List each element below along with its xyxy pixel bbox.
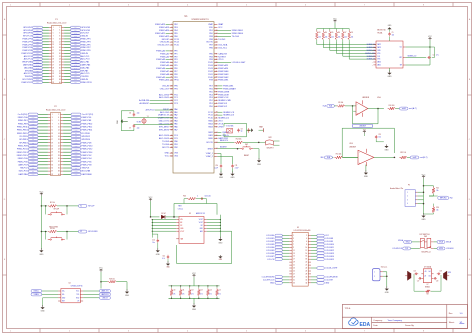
ground below U2-B bbox=[364, 165, 369, 178]
svg-text:PG13: PG13 bbox=[208, 68, 213, 70]
svg-text:FSMC-NOE: FSMC-NOE bbox=[218, 94, 229, 96]
svg-text:LCD-BL-LIGHT: LCD-BL-LIGHT bbox=[232, 62, 246, 64]
svg-text:FSMC-NWE: FSMC-NWE bbox=[218, 91, 230, 93]
wire BOOT0 to switch bbox=[243, 142, 260, 144]
svg-text:GND: GND bbox=[385, 292, 390, 294]
svg-text:PC1: PC1 bbox=[174, 97, 178, 99]
capacitor C15 with ground bbox=[162, 255, 170, 269]
svg-text:LCD-DB15: LCD-DB15 bbox=[325, 259, 334, 261]
label C8 2.2u bbox=[178, 206, 183, 211]
svg-text:PF3: PF3 bbox=[174, 59, 177, 61]
wire NRST net bbox=[208, 147, 240, 151]
svg-text:GPIO-PE2: GPIO-PE2 bbox=[23, 27, 32, 29]
svg-text:LCD-DB9: LCD-DB9 bbox=[325, 241, 333, 243]
wire crystal gnd loop bbox=[121, 111, 134, 131]
svg-text:FSMC-CLK: FSMC-CLK bbox=[218, 97, 229, 99]
svg-text:FSMC-PF1: FSMC-PF1 bbox=[81, 39, 90, 41]
svg-text:LCD-DB14: LCD-DB14 bbox=[325, 256, 334, 258]
svg-text:OSC-IN: OSC-IN bbox=[162, 86, 170, 88]
svg-text:T4-CH3: T4-CH3 bbox=[218, 39, 226, 41]
svg-text:SDMMC-CK: SDMMC-CK bbox=[223, 112, 235, 114]
svg-text:BOOT1: BOOT1 bbox=[162, 147, 170, 149]
svg-text:FSMC-PE13: FSMC-PE13 bbox=[17, 130, 28, 132]
svg-text:GPIO-PE5: GPIO-PE5 bbox=[81, 30, 90, 32]
svg-text:PB6: PB6 bbox=[209, 48, 213, 50]
capacitor C5 104 bbox=[388, 32, 394, 41]
svg-text:PC14: PC14 bbox=[174, 42, 179, 44]
svg-text:FSMC-PF6: FSMC-PF6 bbox=[23, 47, 32, 49]
resistor network R22 4.7k bbox=[188, 285, 193, 299]
title block bbox=[342, 305, 467, 329]
net flag SW-B bbox=[434, 241, 451, 244]
svg-text:FSMC-NE4: FSMC-NE4 bbox=[218, 71, 229, 73]
svg-text:LCD-DB5: LCD-DB5 bbox=[266, 250, 274, 252]
svg-text:FSMC-NE2: FSMC-NE2 bbox=[218, 77, 229, 79]
connector P2 Header-Male-2.54_2x20 bbox=[17, 106, 94, 176]
svg-text:VDD: VDD bbox=[174, 156, 179, 158]
net flag NRF-IRQ bbox=[418, 196, 454, 200]
svg-text:SPI1-MISO: SPI1-MISO bbox=[159, 126, 170, 128]
svg-text:GND: GND bbox=[156, 254, 161, 256]
svg-text:FSMC-PF2: FSMC-PF2 bbox=[23, 41, 32, 43]
connector P3 Header-Male-4 Pin bbox=[390, 185, 424, 207]
resistor R14 10k bbox=[235, 139, 243, 144]
svg-text:FSMC-PG2: FSMC-PG2 bbox=[82, 155, 92, 157]
svg-text:FSMC-PG0: FSMC-PG0 bbox=[18, 117, 28, 119]
ground right of OSC32 bbox=[247, 128, 254, 132]
net flag LCD-SPI-CLK input bbox=[392, 247, 419, 250]
svg-text:FSMC-PG4: FSMC-PG4 bbox=[82, 158, 92, 160]
MCU U1 left pins bbox=[139, 23, 179, 157]
svg-text:FSMC-PF8: FSMC-PF8 bbox=[23, 50, 32, 52]
resistor network R25 4.7k bbox=[216, 285, 221, 299]
svg-text:TIM-PC7: TIM-PC7 bbox=[20, 168, 28, 170]
svg-text:LCD-DB11: LCD-DB11 bbox=[325, 247, 334, 249]
regulator U3 AMS1117-3.3 bbox=[176, 212, 207, 244]
svg-text:FSMC-PG6: FSMC-PG6 bbox=[82, 161, 92, 163]
LCD connector U5 NT35510 bbox=[262, 227, 339, 286]
svg-text:LCD-DB8: LCD-DB8 bbox=[325, 238, 333, 240]
svg-text:KEY-PC13: KEY-PC13 bbox=[23, 36, 32, 38]
connector P1 Header-Male-2.54_2x20 bbox=[21, 19, 91, 84]
svg-text:I2C-PB10: I2C-PB10 bbox=[82, 133, 90, 135]
crystal Y1 8MHz bbox=[136, 116, 148, 124]
ground below key rail bbox=[39, 232, 44, 256]
ground on box loop bbox=[218, 255, 223, 261]
svg-text:GND: GND bbox=[325, 282, 330, 284]
svg-text:FSMC-PD15: FSMC-PD15 bbox=[17, 155, 28, 157]
power VCC resistor network bbox=[192, 273, 196, 286]
op-amp U2-A labels bbox=[362, 96, 381, 99]
svg-text:LCD-CS: LCD-CS bbox=[267, 259, 274, 261]
svg-text:GND: GND bbox=[219, 177, 224, 179]
wire crystal osc-in/out bbox=[128, 118, 150, 125]
svg-text:LCD-SPI-CLK: LCD-SPI-CLK bbox=[263, 280, 275, 282]
diode D1 M7 bbox=[161, 213, 166, 219]
svg-text:DIP SWITCH: DIP SWITCH bbox=[420, 234, 431, 236]
svg-text:FSMC-PE8: FSMC-PE8 bbox=[82, 120, 92, 122]
wire U3 output rail bbox=[207, 215, 221, 238]
svg-text:SPI-PB12: SPI-PB12 bbox=[82, 136, 90, 138]
capacitor C4 4.7u bbox=[427, 47, 439, 59]
svg-text:GND: GND bbox=[270, 282, 275, 284]
svg-text:PB3: PB3 bbox=[209, 59, 213, 61]
svg-text:FSMC-PD10: FSMC-PD10 bbox=[82, 146, 93, 148]
svg-text:PC13: PC13 bbox=[174, 39, 179, 41]
svg-text:FSMC-PE10: FSMC-PE10 bbox=[82, 123, 93, 125]
svg-text:VCC: VCC bbox=[165, 156, 170, 158]
svg-text:BOOT-PB2: BOOT-PB2 bbox=[23, 79, 32, 81]
wire net A-PD-PC13 bbox=[146, 109, 173, 112]
svg-text:LCD-DB12: LCD-DB12 bbox=[325, 250, 334, 252]
svg-text:PC11: PC11 bbox=[208, 115, 212, 117]
svg-text:PH0: PH0 bbox=[174, 86, 178, 88]
svg-text:BOOT0: BOOT0 bbox=[207, 42, 213, 44]
svg-text:PC5: PC5 bbox=[174, 138, 178, 140]
resistor R3 10k pullup bbox=[316, 29, 321, 42]
svg-text:JTDI: JTDI bbox=[218, 121, 223, 123]
resistor R4 10k pullup bbox=[322, 29, 327, 42]
svg-text:PF7: PF7 bbox=[174, 71, 177, 73]
svg-text:PD6: PD6 bbox=[209, 88, 213, 90]
svg-text:LCD-DB3: LCD-DB3 bbox=[266, 244, 274, 246]
ground right of C13 bbox=[384, 142, 389, 152]
svg-text:FSMC-D3: FSMC-D3 bbox=[218, 103, 228, 105]
USB bridge U4 CH340C bbox=[58, 283, 83, 303]
svg-text:JTDO: JTDO bbox=[218, 59, 224, 61]
resistor network R24 4.7k bbox=[207, 285, 212, 299]
svg-text:LCD-RST: LCD-RST bbox=[325, 280, 334, 282]
svg-text:GPIO-PE6: GPIO-PE6 bbox=[23, 33, 32, 35]
svg-text:FSMC-PF5: FSMC-PF5 bbox=[81, 44, 90, 46]
svg-text:FSMC-PF10: FSMC-PF10 bbox=[21, 53, 32, 55]
svg-text:GND: GND bbox=[388, 76, 393, 78]
svg-text:PF6: PF6 bbox=[174, 68, 177, 70]
svg-text:GND: GND bbox=[257, 164, 262, 166]
svg-text:FSMC-PD11: FSMC-PD11 bbox=[17, 149, 28, 151]
resistor R7 10k pullup bbox=[342, 29, 347, 42]
wire VCC to diode D1 bbox=[150, 216, 160, 218]
svg-text:T3-CH4: T3-CH4 bbox=[162, 144, 170, 146]
svg-text:PG14: PG14 bbox=[208, 65, 213, 67]
wire net SDMMC-CK bbox=[330, 42, 376, 52]
svg-text:FSMC-NE3: FSMC-NE3 bbox=[218, 74, 229, 76]
resistor R15 10k bbox=[429, 187, 439, 196]
svg-text:PB0: PB0 bbox=[174, 141, 178, 143]
svg-text:T3-CH3: T3-CH3 bbox=[162, 141, 170, 143]
svg-text:GND-IN: GND-IN bbox=[81, 36, 88, 38]
wire resistor network rails bbox=[169, 286, 220, 298]
resistor R13 bypass bbox=[183, 196, 211, 204]
ground below resistor network bbox=[192, 298, 197, 311]
svg-text:PF10: PF10 bbox=[174, 80, 178, 82]
resistor network R21 4.7k bbox=[179, 285, 184, 299]
wire crystal to U1 OSC pins bbox=[149, 118, 173, 125]
label LM358DR boxed bbox=[353, 124, 373, 127]
svg-text:Drawn By:: Drawn By: bbox=[405, 325, 415, 327]
capacitor C14 10u bbox=[152, 234, 159, 249]
wire U2-B output bbox=[374, 157, 395, 159]
svg-text:GND: GND bbox=[165, 153, 170, 155]
svg-text:STM32F103RCT6: STM32F103RCT6 bbox=[191, 19, 209, 21]
resistor R2 10k KEY-DOWN bbox=[41, 227, 79, 233]
svg-text:LCD-DB10: LCD-DB10 bbox=[325, 244, 334, 246]
net flag out-(A-T) bbox=[395, 107, 417, 110]
wire net SDMMC-D2 bbox=[349, 42, 376, 61]
wire net SDMMC-D3 bbox=[343, 42, 376, 58]
svg-text:FSMC-PE9: FSMC-PE9 bbox=[18, 123, 28, 125]
svg-text:PF4: PF4 bbox=[174, 62, 177, 64]
svg-text:LCD-DB1: LCD-DB1 bbox=[266, 238, 274, 240]
svg-text:FSMC-PG3: FSMC-PG3 bbox=[18, 158, 28, 160]
wire regulator green box loop bbox=[177, 231, 232, 263]
svg-text:PE4: PE4 bbox=[174, 30, 178, 32]
svg-text:PD1: PD1 bbox=[209, 103, 213, 105]
svg-text:PC15: PC15 bbox=[174, 45, 179, 47]
power VCC USB bbox=[99, 268, 103, 289]
svg-text:PD7: PD7 bbox=[209, 86, 213, 88]
svg-text:FSMC-PE14: FSMC-PE14 bbox=[82, 130, 93, 132]
capacitor C10 2.2uF with ground bbox=[214, 164, 223, 179]
card socket U6 MICRO SD TF-01A bbox=[372, 29, 406, 68]
svg-text:T4-CH4: T4-CH4 bbox=[232, 36, 240, 38]
svg-text:-: - bbox=[357, 103, 358, 106]
wire U2-A feedback loop bbox=[353, 106, 384, 124]
svg-text:GND: GND bbox=[192, 309, 197, 311]
push button KEY-DOWN bbox=[46, 232, 67, 241]
svg-text:PC2: PC2 bbox=[174, 100, 178, 102]
svg-text:SPI-PB14: SPI-PB14 bbox=[82, 139, 90, 141]
svg-text:Header-Male-2.54_2x20: Header-Male-2.54_2x20 bbox=[47, 22, 66, 24]
svg-text:PE0: PE0 bbox=[209, 33, 213, 35]
svg-text:FSMC-PE15: FSMC-PE15 bbox=[17, 133, 28, 135]
svg-text:PE2: PE2 bbox=[174, 24, 178, 26]
svg-text:PH1: PH1 bbox=[174, 88, 178, 90]
ground below sensor bbox=[385, 286, 390, 294]
svg-text:SDMMC-CMD: SDMMC-CMD bbox=[218, 100, 231, 102]
capacitor C8 bbox=[237, 128, 243, 132]
svg-text:FSMC-NBL0: FSMC-NBL0 bbox=[232, 33, 244, 35]
svg-text:GND: GND bbox=[364, 176, 369, 178]
capacitor C13 104 bbox=[364, 133, 383, 142]
svg-text:PE1: PE1 bbox=[209, 30, 213, 32]
svg-text:FSMC-NE1: FSMC-NE1 bbox=[218, 80, 229, 82]
EasyEDA logo bbox=[349, 318, 371, 328]
svg-text:FSMC-PE12: FSMC-PE12 bbox=[82, 127, 93, 129]
capacitors C16 C17 speaker left bbox=[413, 271, 421, 283]
net flag LCD-MOSI output bbox=[434, 247, 455, 250]
svg-text:GND: GND bbox=[218, 242, 223, 244]
wire net SDMMC-D0 bbox=[323, 42, 376, 50]
amplifier U7 NS8002 bbox=[421, 265, 433, 288]
svg-text:PF1: PF1 bbox=[174, 53, 177, 55]
svg-text:FSMC-PD9: FSMC-PD9 bbox=[18, 146, 28, 148]
capacitor C11 2.2uF with ground bbox=[230, 164, 238, 179]
svg-text:PE3: PE3 bbox=[174, 27, 178, 29]
resistor R10 100 bbox=[388, 105, 396, 110]
svg-text:LCD-DB13: LCD-DB13 bbox=[325, 253, 334, 255]
wire sensor to ground bbox=[383, 272, 388, 287]
net flag IN-A bbox=[323, 105, 335, 108]
svg-text:SDIO-PC9: SDIO-PC9 bbox=[19, 171, 28, 173]
svg-text:FSMC-NBL1: FSMC-NBL1 bbox=[232, 30, 244, 32]
svg-text:FSMC-PE11: FSMC-PE11 bbox=[17, 127, 27, 129]
wire OSC32 loop bbox=[224, 123, 247, 136]
svg-text:GND: GND bbox=[41, 311, 46, 313]
net flags USB-D+ USB-D- bbox=[31, 290, 58, 297]
power VCC SD detect bbox=[428, 36, 432, 47]
ground right of USB bbox=[125, 289, 130, 297]
svg-text:TIM-PB1: TIM-PB1 bbox=[81, 76, 88, 78]
svg-text:FSMC-PG5: FSMC-PG5 bbox=[18, 161, 28, 163]
svg-text:3V3-OUT: 3V3-OUT bbox=[81, 33, 90, 35]
sensor header Sensor-1 bbox=[373, 266, 388, 281]
svg-text:PE6: PE6 bbox=[174, 36, 178, 38]
svg-text:PD5: PD5 bbox=[209, 91, 213, 93]
svg-text:GND-IN: GND-IN bbox=[81, 53, 88, 55]
svg-text:FSMC-NE1: FSMC-NE1 bbox=[223, 86, 234, 88]
svg-text:BOOT0: BOOT0 bbox=[207, 142, 213, 144]
svg-text:FSMC-PF12: FSMC-PF12 bbox=[21, 82, 32, 84]
ground GND left of crystal bbox=[117, 119, 128, 124]
svg-text:PF9: PF9 bbox=[174, 77, 177, 79]
svg-text:I2C-PB11: I2C-PB11 bbox=[19, 136, 27, 138]
capacitor C6 bbox=[129, 112, 139, 116]
svg-text:OSC32-OUT: OSC32-OUT bbox=[158, 45, 170, 47]
switch SW2 SW-DPDT BOOT0 bbox=[259, 137, 280, 149]
net flag out-(B-T) bbox=[410, 156, 428, 159]
resistor R18 10k bbox=[101, 278, 127, 290]
svg-text:KEY-UP: KEY-UP bbox=[162, 39, 170, 41]
wire VCAP nets bbox=[206, 152, 233, 164]
svg-text:PC12: PC12 bbox=[208, 112, 213, 114]
capacitor C9 bbox=[247, 128, 250, 133]
power VCC op-amp bbox=[363, 130, 367, 136]
power VCC regulator input bbox=[149, 197, 153, 217]
svg-text:SDMMC-D2: SDMMC-D2 bbox=[218, 118, 230, 120]
capacitors C18 C19 speaker right bbox=[434, 271, 442, 283]
op-amp U2-A triangle bbox=[356, 100, 368, 117]
svg-text:LCD-DB0: LCD-DB0 bbox=[266, 235, 274, 237]
wire net SDMMC-D1 bbox=[317, 42, 376, 47]
svg-text:OSC-OUT: OSC-OUT bbox=[160, 88, 170, 90]
ground below USB flags bbox=[41, 298, 59, 313]
svg-text:PF0: PF0 bbox=[174, 51, 177, 53]
svg-text:Rev:: Rev: bbox=[449, 313, 454, 315]
svg-text:SPI1-MOSI: SPI1-MOSI bbox=[159, 129, 170, 131]
svg-text:OSC32-IN: OSC32-IN bbox=[160, 42, 170, 44]
svg-text:GND: GND bbox=[125, 295, 130, 297]
op-amp U2-B triangle bbox=[358, 149, 374, 166]
svg-text:GPIO-PE3: GPIO-PE3 bbox=[81, 27, 90, 29]
svg-text:GPIO-PE4: GPIO-PE4 bbox=[23, 30, 32, 32]
svg-text:PB9: PB9 bbox=[209, 36, 213, 38]
ground above C5 bbox=[387, 25, 392, 32]
net flag KEY-DOWN bbox=[78, 230, 98, 233]
resistor R17 bbox=[425, 290, 430, 296]
push button KEY-UP bbox=[46, 206, 67, 215]
resistor R11 10k bbox=[332, 154, 358, 159]
wire regulator top loop bbox=[173, 204, 217, 218]
svg-text:FSMC-PF3: FSMC-PF3 bbox=[81, 41, 90, 43]
svg-text:FSMC-PG8: FSMC-PG8 bbox=[82, 164, 92, 166]
resistor R8 10k pullup bbox=[348, 29, 353, 42]
wire U3 input rail bbox=[152, 219, 177, 238]
svg-text:GND: GND bbox=[231, 177, 236, 179]
net flag KEY-UP bbox=[78, 205, 95, 208]
svg-text:PG15: PG15 bbox=[208, 62, 213, 64]
svg-text:PB4: PB4 bbox=[209, 56, 213, 58]
svg-text:PD2: PD2 bbox=[209, 100, 213, 102]
svg-text:SPI-PB13: SPI-PB13 bbox=[19, 139, 27, 141]
power VCC NRF header rail bbox=[422, 174, 426, 214]
ground below C14 bbox=[156, 248, 161, 256]
resistor R6 10k pullup bbox=[335, 29, 340, 42]
wire SD pullup rail bbox=[317, 23, 349, 29]
svg-text:VDD: VDD bbox=[209, 27, 214, 29]
svg-text:FSMC-PF9: FSMC-PF9 bbox=[81, 50, 90, 52]
svg-text:PD0: PD0 bbox=[209, 106, 213, 108]
svg-text:GND: GND bbox=[422, 219, 427, 221]
svg-text:TITLE:: TITLE: bbox=[345, 308, 352, 310]
svg-text:FSMC-PG1: FSMC-PG1 bbox=[82, 117, 92, 119]
svg-text:JTCK: JTCK bbox=[218, 124, 224, 126]
svg-text:FSMC-PF7: FSMC-PF7 bbox=[81, 47, 90, 49]
svg-text:PB1: PB1 bbox=[174, 144, 178, 146]
net flags UART bbox=[83, 290, 110, 300]
ground below U3 output bbox=[218, 237, 223, 245]
svg-text:FSMC-PD13: FSMC-PD13 bbox=[17, 152, 28, 154]
svg-text:FSMC-D2: FSMC-D2 bbox=[218, 106, 228, 108]
svg-text:LCD-BL-LIGHT: LCD-BL-LIGHT bbox=[325, 268, 338, 270]
speaker jack right bbox=[444, 271, 451, 280]
resistor R9 10k bbox=[334, 102, 345, 107]
svg-text:FSMC-PD14: FSMC-PD14 bbox=[82, 152, 93, 154]
wire BOOT0 net bbox=[207, 140, 235, 144]
svg-text:-: - bbox=[359, 152, 360, 155]
resistor network R23 4.7k bbox=[198, 285, 203, 299]
resistor R1 10k KEY-UP bbox=[41, 202, 78, 207]
svg-text:LCD-DB2: LCD-DB2 bbox=[266, 241, 274, 243]
ground below SD socket bbox=[387, 68, 392, 78]
svg-text:PG12: PG12 bbox=[208, 71, 213, 73]
power VBAT stub bbox=[259, 126, 264, 133]
svg-text:FSMC-PE7: FSMC-PE7 bbox=[18, 120, 28, 122]
svg-text:LCD-DB4: LCD-DB4 bbox=[266, 247, 274, 249]
net flag IN-B bbox=[320, 156, 332, 159]
wire speaker feedback loop bbox=[414, 274, 441, 291]
svg-text:PB5: PB5 bbox=[209, 53, 213, 55]
svg-text:Company:: Company: bbox=[373, 320, 383, 322]
svg-text:PB7: PB7 bbox=[209, 45, 213, 47]
power VCC key rail bbox=[40, 192, 44, 232]
svg-text:MICRO SD: MICRO SD bbox=[377, 29, 386, 31]
resistor R5 10k pullup bbox=[329, 29, 334, 42]
push button SW1 RESET bbox=[240, 144, 253, 157]
svg-text:PC0: PC0 bbox=[174, 94, 178, 96]
svg-text:GND: GND bbox=[385, 149, 390, 151]
svg-text:PG10: PG10 bbox=[208, 77, 213, 79]
wire U2-A noninv stub bbox=[353, 111, 356, 114]
label DIP SWITCH bbox=[420, 234, 431, 236]
svg-text:PC4: PC4 bbox=[174, 135, 178, 137]
power VCC SD pullups bbox=[333, 19, 337, 23]
switch SW4 SW-DIP8x-L2 bbox=[420, 236, 434, 253]
svg-text:PF5: PF5 bbox=[174, 65, 177, 67]
svg-text:PC3: PC3 bbox=[174, 103, 178, 105]
svg-text:TIM-PC8: TIM-PC8 bbox=[82, 168, 90, 170]
svg-text:FSMC-PF4: FSMC-PF4 bbox=[23, 44, 32, 46]
